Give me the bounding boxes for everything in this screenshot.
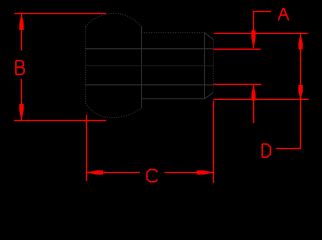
dim D line and leader [276, 33, 301, 148]
dim B arrow up [19, 14, 23, 30]
dim B top extension line [14, 13, 106, 15]
dim A arrow down [251, 30, 255, 48]
dim C left extension line [86, 115, 88, 181]
label D [262, 144, 270, 157]
top chamfer [205, 33, 214, 40]
label B [16, 61, 24, 75]
dim A leader [254, 12, 272, 48]
chamfer start edge [204, 33, 206, 99]
centerline [86, 65, 214, 67]
dim C arrow right [197, 170, 214, 174]
part body right face [141, 27, 143, 108]
dim A hole bottom extension line [214, 83, 262, 85]
dim C right extension line [213, 101, 215, 184]
dim D top extension line [214, 32, 308, 34]
dim B bottom extension line [14, 120, 106, 122]
dim C line right segment [165, 172, 214, 174]
part body bottom arc [86, 103, 142, 118]
neck bottom edge [142, 98, 205, 100]
dim A arrow stem [253, 85, 255, 123]
dim B arrow down [19, 104, 23, 120]
dim D arrow up [298, 34, 302, 50]
neck right end face [212, 40, 214, 93]
dim A arrow up [251, 85, 255, 101]
dim D bottom extension line [214, 98, 309, 100]
dim B line lower segment [21, 79, 23, 121]
label A [278, 9, 288, 21]
label C [147, 170, 158, 182]
dim B line upper segment [21, 14, 23, 51]
neck top edge [142, 32, 205, 34]
hole bottom line [86, 84, 214, 86]
hole top line [86, 48, 214, 50]
part body left edge [85, 26, 87, 103]
dim C line left segment [87, 172, 141, 174]
dim C arrow left [87, 170, 104, 174]
dim A hole top extension line [214, 48, 261, 50]
part body dome (top arc of ball end) [86, 13, 142, 26]
bottom chamfer [205, 93, 214, 99]
dim D arrow down [298, 85, 302, 99]
